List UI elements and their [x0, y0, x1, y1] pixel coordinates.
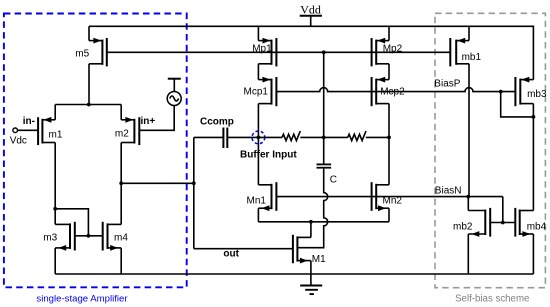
- resistor R1: [282, 131, 300, 141]
- AC source vin: [139, 79, 181, 131]
- svg-text:m2: m2: [115, 128, 129, 139]
- marker: Buffer Input highlight (blue dashed circle): [252, 131, 265, 144]
- wire: Mp2 source stub: [388, 26, 390, 40]
- svg-text:Mp2: Mp2: [383, 43, 403, 54]
- svg-text:mb3: mb3: [527, 89, 547, 100]
- wire: Mp1 drain to Mcp1 source: [257, 64, 259, 80]
- wire: resistor line middle segment: [300, 136, 348, 138]
- svg-text:C: C: [330, 175, 337, 186]
- svg-text:out: out: [223, 249, 239, 260]
- node: mb3 drain junction: [532, 115, 536, 119]
- node: middle column junction: [322, 136, 326, 140]
- wire: Ccomp left lead: [194, 136, 223, 138]
- wire: resistor line left segment: [258, 136, 282, 138]
- wire: Mn2 source stub: [388, 208, 390, 222]
- wire: resistor line right segment: [366, 136, 389, 138]
- wire: Mn1 source stub: [257, 208, 259, 222]
- node: M1 drain junction: [309, 220, 313, 224]
- wire: m3/m4 gate link: [75, 235, 103, 237]
- wire: m1 drain column: [54, 143, 56, 225]
- transistor Mp1: [252, 38, 276, 67]
- ground symbol: [300, 286, 322, 295]
- transistor m4: [103, 222, 129, 251]
- svg-text:m4: m4: [114, 232, 128, 243]
- transistor mb3: [515, 77, 547, 107]
- node: mb3 gate junction: [499, 90, 503, 94]
- label: Self-bias scheme: [455, 294, 529, 305]
- wire: Mn source line: [258, 221, 389, 223]
- transistor m5: [75, 38, 107, 67]
- wire: M1 drain stub: [310, 222, 312, 238]
- wire: middle column lower (C to M1 bulk) with hops: [297, 168, 327, 248]
- transistor m2: [115, 117, 139, 145]
- transistor Mn1: [247, 182, 277, 211]
- wire: gate rail m5/Mp1/Mp2/mb1: [107, 51, 451, 53]
- label: BiasN: [435, 186, 462, 197]
- svg-text:Vdd: Vdd: [300, 3, 321, 17]
- wire: ground rail: [55, 273, 533, 275]
- node: m4 drain junction: [119, 181, 123, 185]
- node: m3 diode junction: [53, 207, 57, 211]
- svg-text:Ccomp: Ccomp: [200, 116, 234, 127]
- transistor Mcp1: [244, 77, 277, 107]
- label: single-stage Amplifier: [36, 294, 128, 305]
- transistor Mp2: [372, 38, 403, 67]
- label: Buffer Input: [240, 149, 297, 160]
- wire: mb2/mb4 gate link: [490, 222, 515, 224]
- wire: Mp2 drain to Mcp2 source: [388, 64, 390, 80]
- wire: Mcp gate line / BiasP net: [276, 88, 515, 92]
- svg-text:BiasN: BiasN: [435, 186, 462, 197]
- wire: resistor node to Mn2 drain: [388, 137, 390, 184]
- wire: m3 gate-drain diode link: [55, 209, 88, 236]
- node: m3/m4 gate junction: [87, 234, 91, 238]
- capacitor Ccomp: [200, 116, 234, 148]
- transistor mb2: [453, 208, 490, 237]
- node: tail junction: [87, 103, 91, 107]
- svg-text:Mn1: Mn1: [247, 195, 267, 206]
- wire: Buffer Input to Mn1 drain: [257, 137, 259, 184]
- label: Vdc: [10, 135, 27, 146]
- boundary box: Self-bias scheme (gray dashed): [435, 13, 545, 287]
- wire: mb1 drain to BiasN node: [468, 64, 470, 197]
- svg-text:M1: M1: [312, 254, 326, 265]
- wire: mb3 gate-drain link: [501, 92, 534, 117]
- wire: mb4 source to ground rail: [532, 234, 534, 274]
- wire: Mcp2 drain to resistor node: [388, 104, 390, 138]
- wire: m2 source stub: [120, 105, 122, 120]
- svg-text:mb2: mb2: [453, 222, 473, 233]
- wire: differential pair tail: [55, 104, 121, 106]
- transistor Mcp2: [372, 77, 405, 107]
- svg-text:Vdc: Vdc: [10, 135, 27, 146]
- node: mb2/mb4 gate junction: [501, 221, 505, 225]
- node: out column junction: [192, 181, 196, 185]
- svg-text:Mp1: Mp1: [252, 43, 272, 54]
- svg-text:mb4: mb4: [527, 222, 547, 233]
- terminal in- (open circle): [13, 128, 18, 133]
- node: right column junction: [387, 136, 391, 140]
- svg-text:m5: m5: [75, 49, 89, 60]
- wire: amplifier output (m4 drain to out node): [121, 182, 194, 184]
- wire: m1 source stub: [54, 105, 56, 120]
- svg-text:Mcp1: Mcp1: [244, 86, 269, 97]
- transistor Mn2: [372, 182, 403, 211]
- transistor mb4: [515, 208, 546, 237]
- label: in-: [23, 116, 35, 127]
- wire: mb2 drain stub: [467, 197, 469, 211]
- wire: middle column upper (Mp gates to C): [323, 52, 325, 164]
- node: Buffer Input (dot): [257, 136, 261, 140]
- wire: in- to m1 gate: [18, 129, 39, 131]
- svg-text:Self-bias scheme: Self-bias scheme: [455, 294, 529, 305]
- label: BiasP: [434, 79, 460, 90]
- label: in+: [141, 116, 156, 127]
- wire: BiasN to mb gate link: [502, 197, 504, 223]
- wire: m4 source to ground rail: [120, 248, 122, 274]
- wire: Mn gate line / BiasN net: [276, 196, 502, 198]
- wire: m3 source to ground rail: [54, 248, 56, 274]
- wire: M1 source to ground: [310, 261, 312, 286]
- transistor m1: [38, 117, 63, 145]
- transistor mb1: [450, 38, 481, 67]
- label: out: [223, 249, 239, 260]
- svg-text:m1: m1: [49, 129, 63, 140]
- wire: m2 drain column: [120, 143, 122, 225]
- svg-text:single-stage Amplifier: single-stage Amplifier: [36, 294, 128, 305]
- node: Mp gate junction: [322, 50, 326, 54]
- wire: Ccomp right lead: [228, 136, 258, 138]
- wire: mb1 source stub: [468, 26, 470, 40]
- svg-text:m3: m3: [43, 232, 57, 243]
- svg-text:in+: in+: [141, 116, 156, 127]
- wire: Mcp1 drain to Buffer Input node: [257, 104, 259, 138]
- wire: out vertical column: [193, 137, 195, 248]
- wire: Mp1 source stub: [257, 26, 259, 40]
- resistor R2: [348, 131, 366, 141]
- svg-text:BiasP: BiasP: [434, 79, 460, 90]
- node: BiasN junction: [466, 195, 470, 199]
- transistor M1: [293, 235, 326, 265]
- wire: mb2 source to ground rail: [467, 234, 469, 274]
- svg-text:mb1: mb1: [462, 52, 482, 63]
- wire: mb3 drain column to mb4 drain: [532, 104, 534, 211]
- svg-text:in-: in-: [23, 116, 35, 127]
- wire: m5 drain to tail node: [88, 64, 90, 105]
- wire: out line to M1 gate: [194, 248, 293, 250]
- svg-text:Buffer Input: Buffer Input: [240, 149, 297, 160]
- power symbol Vdd: [300, 3, 322, 27]
- wire: Vdd rail: [89, 26, 533, 79]
- capacitor C: [317, 164, 338, 185]
- wire: m5 source stub: [88, 26, 90, 40]
- boundary box: single-stage Amplifier (blue dashed): [4, 14, 187, 288]
- transistor m3: [43, 222, 75, 251]
